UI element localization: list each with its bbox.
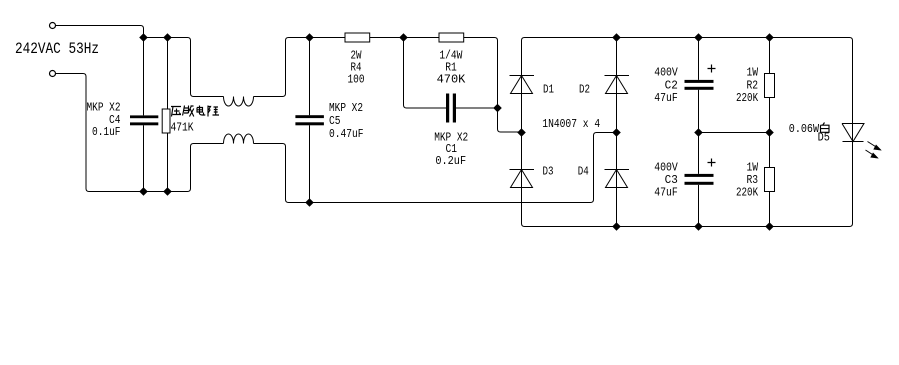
svg-text:D4: D4 bbox=[578, 165, 589, 179]
resistor R4 box bbox=[345, 33, 370, 42]
svg-text:220K: 220K bbox=[736, 186, 759, 200]
inductor L2 (bottom choke winding) bbox=[224, 134, 254, 144]
varistor RV1 box bbox=[162, 109, 170, 133]
capacitor C5 vertical wires bbox=[309, 38, 311, 116]
LED arrowheads bbox=[873, 145, 882, 151]
diode D4 bbox=[605, 170, 630, 188]
svg-text:470K: 470K bbox=[437, 73, 466, 87]
wire: varistor top branch bbox=[167, 38, 169, 110]
svg-text:D3: D3 bbox=[543, 165, 554, 179]
wire: top rail from C4 to corner, down to top coil bbox=[144, 38, 224, 97]
junction: R4/R1 node bbox=[399, 33, 408, 42]
junction: R3 bottom bbox=[765, 222, 774, 231]
junction: R2 top bbox=[765, 33, 774, 42]
svg-text:D5: D5 bbox=[818, 131, 830, 145]
svg-text:242VAC 53Hz: 242VAC 53Hz bbox=[15, 40, 99, 58]
wire: branch from R4/R1 junction down to C1 bbox=[404, 38, 447, 109]
junction: varistor bottom bbox=[163, 187, 172, 196]
svg-text:0.47uF: 0.47uF bbox=[329, 127, 364, 141]
svg-text:0.1uF: 0.1uF bbox=[92, 125, 121, 139]
diode D2 bbox=[605, 76, 630, 94]
junction: C5 top bbox=[305, 33, 314, 42]
capacitor C3 vertical wires bbox=[698, 133, 700, 227]
svg-text:D2: D2 bbox=[579, 83, 590, 97]
terminal J2 (line input bottom) bbox=[50, 71, 56, 77]
wire: R1 right to corner down to AC1 junction bbox=[464, 38, 522, 133]
svg-text:C5: C5 bbox=[329, 114, 341, 128]
diode D3 bbox=[510, 170, 535, 188]
svg-text:47uF: 47uF bbox=[654, 91, 678, 105]
C2 polarity plus bbox=[708, 65, 716, 73]
resistor R3 box bbox=[765, 168, 775, 192]
svg-text:220K: 220K bbox=[736, 91, 759, 105]
svg-text:471K: 471K bbox=[171, 121, 195, 135]
svg-text:1W: 1W bbox=[747, 66, 759, 80]
junction: C2/C3 midpoint bbox=[694, 128, 703, 137]
resistor R2 vertical wires bbox=[769, 38, 771, 133]
capacitor C2 plates bbox=[685, 80, 714, 83]
svg-text:1N4007 x 4: 1N4007 x 4 bbox=[542, 117, 600, 131]
junction: R2/R3 midpoint bbox=[765, 128, 774, 137]
terminal J1 (line input top) bbox=[50, 23, 56, 29]
capacitor C5 plates bbox=[295, 115, 324, 118]
resistor R1 box bbox=[439, 33, 464, 42]
svg-text:47uF: 47uF bbox=[654, 186, 678, 200]
wire: C1 right plate to junction bbox=[456, 107, 498, 109]
wire: varistor bottom branch bbox=[167, 133, 169, 192]
svg-text:D1: D1 bbox=[543, 83, 554, 97]
svg-text:0.06W: 0.06W bbox=[789, 122, 820, 136]
junction: C2 top bbox=[694, 33, 703, 42]
label: varistor chinese 压敏电阻 (drawn) bbox=[171, 106, 219, 117]
resistor R2 box bbox=[765, 74, 775, 98]
svg-text:100: 100 bbox=[348, 73, 365, 87]
wire: top coil to C5 top rail bbox=[254, 38, 346, 97]
wire: C4 bottom plate to bottom-left rail bbox=[143, 125, 145, 191]
LED D5 bbox=[842, 124, 864, 142]
junction: C4 top rail bbox=[139, 33, 148, 42]
junction: bridge right midpoint AC2 bbox=[612, 128, 621, 137]
svg-text:MKP X2: MKP X2 bbox=[329, 101, 363, 115]
resistor R3 vertical wires bbox=[769, 133, 771, 227]
inductor L1 (top choke winding) bbox=[224, 97, 254, 107]
junction: varistor top bbox=[163, 33, 172, 42]
junction: R1/C1 output node bbox=[493, 104, 502, 113]
capacitor C3 plates bbox=[685, 174, 714, 177]
wire: middle rail C2/C3 midpoint to R2/R3 midpoint bbox=[699, 132, 770, 134]
wire: bridge right branch D2/D4 bbox=[616, 38, 618, 227]
wire: R4 to R1 bbox=[370, 37, 439, 39]
capacitor C4 plates bbox=[130, 115, 158, 118]
wire: bridge loop (top rail, LED branch right side, bottom rail, D1/D3 branch) bbox=[522, 38, 853, 227]
junction: bridge left midpoint AC1 bbox=[517, 128, 526, 137]
wire: top terminal to C4 top / top rail bbox=[56, 26, 144, 116]
svg-text:0.2uF: 0.2uF bbox=[435, 154, 466, 168]
capacitor C2 vertical wires bbox=[698, 38, 700, 133]
LED D5 emission arrows bbox=[868, 142, 878, 148]
junction: D4 bottom bbox=[612, 222, 621, 231]
capacitor C1 plates bbox=[446, 94, 449, 123]
junction: C3 bottom bbox=[694, 222, 703, 231]
wire: bottom coil to C5 bottom rail, AC2 rail to bridge midpoint right bbox=[254, 133, 617, 203]
wire: bottom terminal down and bottom-left rail bbox=[56, 74, 224, 192]
C3 polarity plus bbox=[708, 159, 716, 167]
junction: C4 bottom bbox=[139, 187, 148, 196]
svg-text:400V: 400V bbox=[654, 66, 678, 80]
label: D5 chinese 白 (drawn) bbox=[821, 123, 830, 133]
diode D1 bbox=[510, 76, 535, 94]
junction: bridge top right branch bbox=[612, 33, 621, 42]
junction: C5 bottom bbox=[305, 198, 314, 207]
